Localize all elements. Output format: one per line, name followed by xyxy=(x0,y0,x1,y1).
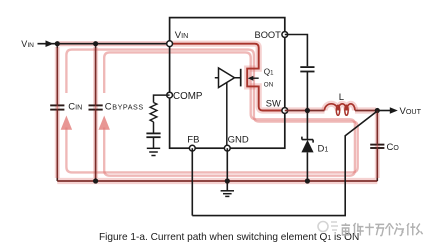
wire resistor to capacitor xyxy=(153,122,155,133)
wire VOUT xyxy=(377,110,392,112)
SW output wire xyxy=(285,110,378,112)
ground (comp network) xyxy=(147,148,160,155)
junction dot rail/CBYPASS xyxy=(93,178,98,183)
junction dot VIN/CIN xyxy=(55,41,60,46)
junction dot D1/rail xyxy=(305,178,310,183)
char 4 xyxy=(375,224,384,235)
pin BOOT circle xyxy=(282,32,288,38)
wire driver to GND pin xyxy=(226,83,228,148)
pink current-loop P2 (CBYPASS loop) xyxy=(104,52,355,175)
pink arrow (current direction, CIN branch) xyxy=(61,116,72,130)
char 7 xyxy=(407,223,415,235)
feedback wire bottom xyxy=(192,111,377,216)
svg-text:GND: GND xyxy=(228,135,249,146)
pin SW circle xyxy=(282,108,288,114)
COMP compensation network wire xyxy=(154,95,170,102)
VOUT arrowhead xyxy=(390,107,398,114)
op-amp driver (gate buffer) xyxy=(215,68,241,88)
svg-text:D1: D1 xyxy=(318,144,329,155)
capacitor C (comp) xyxy=(146,133,160,137)
wire BOOT to bootstrap cap xyxy=(285,35,308,67)
pink band over VIN wire xyxy=(57,41,170,46)
junction dot SW/D1/bootstrap xyxy=(305,108,310,113)
svg-text:VOUT: VOUT xyxy=(400,106,422,117)
VIN source arrowhead xyxy=(46,40,54,47)
svg-text:ON: ON xyxy=(264,82,274,89)
char 3 xyxy=(365,223,374,235)
svg-text:L: L xyxy=(339,92,344,103)
red path through IC and Q1 xyxy=(170,44,285,111)
pin FB circle xyxy=(189,145,195,151)
junction dot VOUT node xyxy=(375,108,380,113)
svg-text:CBYPASS: CBYPASS xyxy=(105,102,144,113)
pin VIN circle xyxy=(167,41,173,47)
junction dot VIN/CBYPASS xyxy=(93,41,98,46)
svg-text:COMP: COMP xyxy=(173,91,203,102)
wire FB pin down xyxy=(191,148,193,215)
svg-text:CIN: CIN xyxy=(68,102,82,113)
wire capacitor to ground xyxy=(153,137,155,148)
IC block U1 outline xyxy=(170,18,285,149)
svg-text:Figure 1-a. Current path when: Figure 1-a. Current path when switching … xyxy=(99,232,359,243)
wire bootstrap cap to SW node xyxy=(306,72,308,111)
capacitor CBYPASS xyxy=(89,44,103,181)
svg-text:VIN: VIN xyxy=(21,39,34,49)
char 8 xyxy=(416,224,423,235)
svg-text:SW: SW xyxy=(266,99,281,109)
char 1 xyxy=(342,223,351,235)
svg-text:CO: CO xyxy=(387,142,400,153)
watermark text (grey CJK-like strokes) xyxy=(342,223,423,236)
svg-text:BOOT: BOOT xyxy=(255,30,282,40)
transistor Q1 body arrow xyxy=(248,76,259,81)
bootstrap capacitor xyxy=(300,67,314,71)
pin GND circle xyxy=(224,145,230,151)
pink current-loop P1 (CIN loop) xyxy=(66,50,357,173)
inductor L xyxy=(325,104,356,111)
svg-text:Q1: Q1 xyxy=(264,68,274,77)
svg-text:FB: FB xyxy=(187,135,199,146)
ground return rail (bottom) xyxy=(57,180,377,182)
transistor Q1 gate bar xyxy=(240,69,242,87)
diode D1 xyxy=(301,111,313,182)
pink arrow (current direction, CBYPASS branch) xyxy=(99,116,110,130)
wire VIN source to IC xyxy=(38,43,170,45)
capacitor CO xyxy=(370,111,384,182)
svg-text:VIN: VIN xyxy=(175,30,189,41)
pink halo along main current path xyxy=(57,44,377,181)
junction dot GND/rail xyxy=(225,178,230,183)
char 6 xyxy=(394,223,403,235)
wire GND pin down to rail xyxy=(226,148,228,191)
capacitor CIN xyxy=(50,44,64,181)
watermark logo xyxy=(318,222,338,232)
pin COMP circle xyxy=(167,92,173,98)
ground (power) xyxy=(221,191,234,197)
char 2 xyxy=(353,223,363,236)
char 5 xyxy=(385,223,393,235)
resistor R (comp) xyxy=(150,103,157,122)
